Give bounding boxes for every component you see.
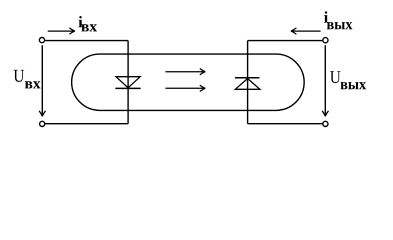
wire U-vx voltage arrow line — [41, 45, 43, 116]
wire U-vyx voltage arrow line — [324, 45, 326, 116]
label U left: U — [14, 70, 24, 82]
label vx sub U: вх — [25, 81, 41, 88]
wire top-right (output top rail) — [248, 40, 323, 42]
label U right: U — [330, 71, 340, 83]
label vyx sub i: вых — [327, 22, 353, 29]
label i right: i — [324, 11, 328, 22]
wire photodiode branch vertical — [247, 41, 249, 124]
optocoupler U1 body (stadium outline) — [72, 54, 305, 110]
label i left: i — [79, 16, 83, 27]
node input - terminal — [40, 121, 45, 126]
diode VD2 photodiode triangle — [235, 79, 260, 90]
diode VD2 photodiode cathode bar — [235, 77, 260, 79]
diode VD1 LED cathode bar — [115, 87, 140, 89]
node input + terminal — [39, 38, 44, 43]
wire light-transfer arrow 2 — [165, 85, 205, 91]
wire i-vyx current arrow — [291, 28, 321, 34]
wire U-vyx voltage arrowhead — [322, 111, 328, 117]
wire bottom-right (output bottom rail) — [248, 123, 323, 125]
label vx sub i: вх — [81, 24, 97, 31]
wire LED branch vertical — [127, 41, 129, 124]
wire light-transfer arrow 1 — [165, 69, 205, 75]
node output - terminal — [323, 121, 328, 126]
label vyx sub U: вых — [341, 82, 367, 89]
wire top-left (input top rail) — [45, 40, 128, 42]
wire bottom-left (input bottom rail) — [45, 123, 128, 125]
wire U-vx voltage arrowhead — [39, 111, 45, 117]
node output + terminal — [323, 38, 328, 43]
wire i-vx current arrow — [48, 28, 75, 34]
diode VD1 LED triangle — [116, 77, 140, 88]
